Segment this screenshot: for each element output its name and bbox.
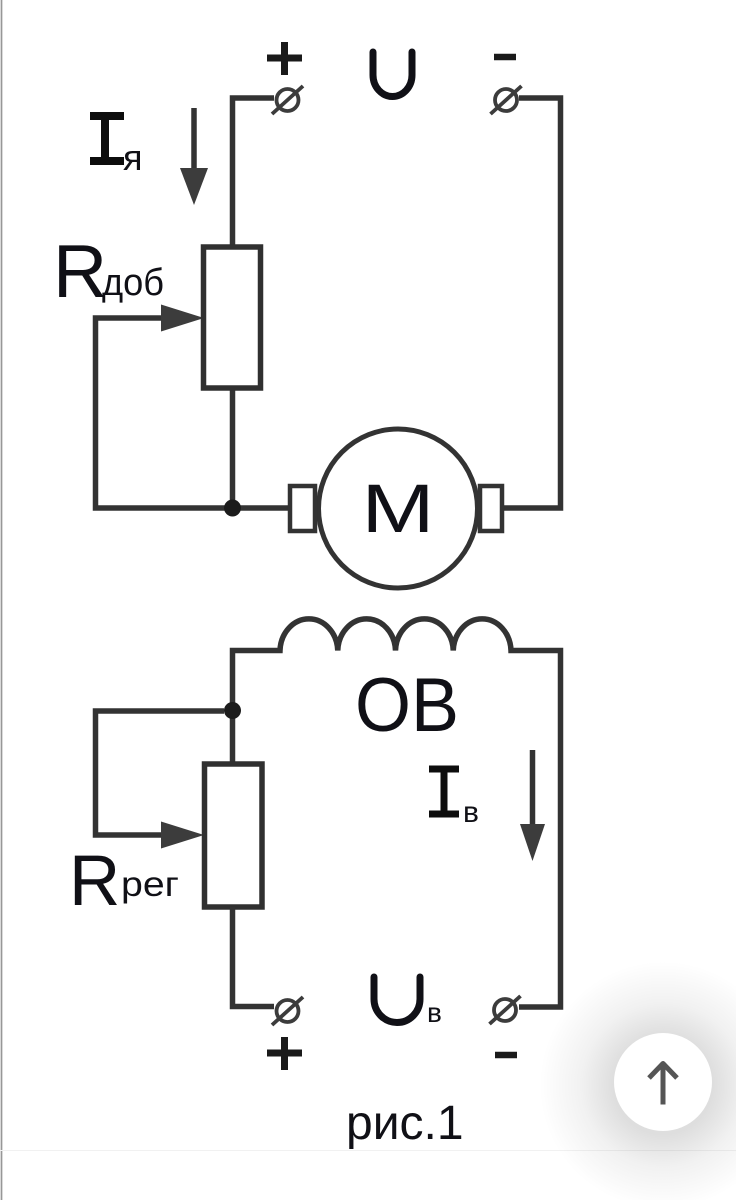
terminal - (bottom right) xyxy=(495,1052,517,1059)
svg-text:я: я xyxy=(123,137,143,178)
label I field (Iв) xyxy=(429,769,459,814)
content bottom separator xyxy=(0,1150,736,1152)
wire wiper loop of Rreg (left bypass) xyxy=(96,711,225,835)
wire Rdob bottom to junction A xyxy=(230,388,236,508)
wiper arrowhead into Rreg xyxy=(161,822,204,849)
motor left brush xyxy=(290,486,315,531)
wire wiper loop of Rdob (left bypass) xyxy=(96,318,291,508)
arrow Iя (current direction) xyxy=(191,108,197,172)
scroll-to-top button shadow xyxy=(539,961,736,1200)
terminal clamp top-right xyxy=(491,86,522,114)
page left border xyxy=(1,0,3,1200)
junction A (armature node) xyxy=(224,500,241,517)
scroll-to-top button xyxy=(614,1033,712,1131)
scroll-to-top arrow icon xyxy=(649,1064,677,1105)
terminal clamp bottom-right xyxy=(490,996,521,1024)
svg-text:рег: рег xyxy=(121,865,179,904)
label Uv (field supply) xyxy=(374,977,420,1022)
label U (supply) xyxy=(373,52,412,96)
motor M circle xyxy=(319,429,478,588)
motor right brush xyxy=(480,486,502,531)
wire top-left: terminal to resistor Rdob xyxy=(233,98,275,247)
terminal clamp bottom-left xyxy=(272,997,303,1025)
svg-text:рис.1: рис.1 xyxy=(346,1097,464,1150)
svg-text:M: M xyxy=(362,470,435,547)
svg-text:в: в xyxy=(463,796,479,829)
wiper arrowhead into Rdob xyxy=(161,305,204,332)
arrow Iв (current direction) xyxy=(530,750,536,828)
svg-text:R: R xyxy=(53,229,107,313)
terminal + (bottom left) xyxy=(267,1037,302,1070)
field winding OB coil with side wires xyxy=(233,619,561,1007)
terminal clamp top-left xyxy=(272,86,303,114)
resistor Rdob body xyxy=(204,247,261,388)
svg-text:ОВ: ОВ xyxy=(355,663,459,748)
wire top-right: terminal down to motor right brush xyxy=(502,98,561,508)
junction B (field node) xyxy=(224,702,241,719)
terminal - (top right) xyxy=(494,54,516,61)
svg-text:R: R xyxy=(69,842,120,921)
svg-text:доб: доб xyxy=(102,262,164,304)
wire Rreg bottom to bottom-left terminal xyxy=(233,907,275,1007)
label I armature (Iя) xyxy=(90,116,124,161)
svg-text:в: в xyxy=(427,997,442,1028)
resistor Rreg body xyxy=(205,764,263,907)
terminal + (top left) xyxy=(267,42,302,75)
